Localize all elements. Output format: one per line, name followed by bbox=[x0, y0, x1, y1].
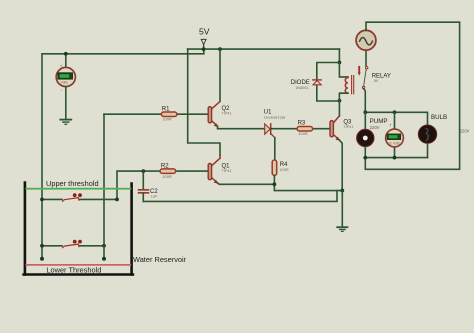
svg-text:Volts: Volts bbox=[61, 81, 69, 85]
wire 5V rail y=49.1 bbox=[188, 48, 340, 50]
resistor R3 bbox=[297, 121, 313, 136]
svg-text:AC Volts: AC Volts bbox=[388, 142, 401, 146]
svg-text:5V: 5V bbox=[374, 79, 379, 83]
svg-text:1N4001: 1N4001 bbox=[295, 86, 308, 90]
power pin 5V bbox=[199, 27, 210, 50]
node ground junction bbox=[340, 189, 344, 193]
node upper switch left bbox=[40, 198, 44, 202]
relay RL1 coil bbox=[339, 63, 353, 101]
svg-text:220V: 220V bbox=[370, 125, 380, 130]
svg-text:R2: R2 bbox=[161, 163, 169, 169]
wire voltmeter bottom lead bbox=[65, 87, 67, 120]
node 5V pin junction bbox=[202, 47, 206, 51]
svg-text:Water Reservoir: Water Reservoir bbox=[133, 255, 187, 264]
svg-text:TIP41: TIP41 bbox=[343, 125, 353, 129]
svg-text:Upper threshold: Upper threshold bbox=[46, 179, 99, 188]
wire lower probe switch line y=245.8 bbox=[42, 245, 62, 247]
wire R2 line y=171.1 bbox=[117, 171, 208, 199]
voltmeter VM1 bbox=[56, 63, 75, 92]
node C2 top junction bbox=[141, 169, 145, 173]
wire riser to lower switch x=104 bbox=[103, 114, 105, 246]
resistor R2 bbox=[160, 163, 176, 179]
node lower switch right bbox=[102, 244, 106, 248]
transistor Q2 bbox=[208, 49, 265, 129]
switch lower (level sensor) bbox=[63, 240, 82, 248]
wire AC loop top right bbox=[365, 22, 459, 169]
svg-text:BULB: BULB bbox=[431, 114, 447, 121]
ground under Q3 bbox=[337, 227, 347, 231]
diode DIODE 1N4001 bbox=[291, 80, 321, 90]
diode D1 branch wires bbox=[317, 63, 340, 102]
svg-text:1uF: 1uF bbox=[151, 193, 158, 198]
wire load top bus y=112.3 bbox=[365, 112, 427, 125]
wire top-left rail y=53.8 bbox=[42, 49, 204, 54]
wire Q1 collector feed bbox=[188, 49, 220, 156]
relay actuation arrow bbox=[358, 67, 361, 76]
node contact/pump top bbox=[363, 110, 367, 114]
wire bulb bottom lead bbox=[427, 143, 429, 157]
upper threshold green line bbox=[26, 188, 130, 190]
node probe tip right bbox=[102, 257, 106, 261]
svg-text:220V: 220V bbox=[460, 129, 470, 134]
svg-text:+: + bbox=[60, 63, 63, 68]
motor PUMP bbox=[357, 118, 388, 147]
wire R4 bottom to ground node bbox=[274, 175, 342, 190]
wire upper probe switch line y=199.4 bbox=[42, 198, 62, 200]
relay contact bbox=[362, 50, 391, 112]
wire to ground 2 bbox=[341, 191, 343, 227]
wire U1 gate to R4 bbox=[274, 138, 276, 160]
water reservoir tank bbox=[24, 183, 133, 275]
wire voltmeter top lead bbox=[65, 54, 67, 68]
svg-text:100R: 100R bbox=[162, 116, 171, 121]
svg-text:R3: R3 bbox=[298, 121, 306, 127]
lower threshold red line bbox=[26, 264, 130, 266]
wire U1 cathode to Q3 base bbox=[271, 128, 330, 130]
switch upper (level sensor) bbox=[63, 193, 82, 201]
ground under voltmeter bbox=[60, 120, 71, 125]
lamp BULB bbox=[418, 114, 469, 143]
node voltmeter top bbox=[64, 52, 68, 56]
AC voltmeter leads bbox=[394, 112, 396, 157]
node meter bottom bbox=[393, 156, 397, 160]
svg-text:100R: 100R bbox=[298, 131, 307, 136]
svg-text:100R: 100R bbox=[279, 167, 288, 172]
wire C2 to ground node bbox=[143, 191, 337, 202]
svg-text:THYRISTOR: THYRISTOR bbox=[263, 116, 285, 120]
resistor R4 bbox=[272, 160, 289, 175]
thyristor U1 bbox=[263, 110, 285, 138]
wire pump bottom lead bbox=[364, 147, 366, 158]
svg-text:100R: 100R bbox=[162, 174, 171, 179]
svg-text:5V: 5V bbox=[199, 27, 210, 37]
svg-text:U1: U1 bbox=[264, 110, 272, 116]
AC voltmeter bbox=[386, 123, 404, 147]
node pump bottom bbox=[363, 156, 367, 160]
node probe tip left bbox=[40, 257, 44, 261]
node relay top junction bbox=[338, 61, 342, 65]
wire pump top lead bbox=[364, 112, 366, 129]
resistor R1 wire bbox=[104, 113, 208, 115]
capacitor C2 bbox=[139, 171, 159, 201]
node relay bottom junction bbox=[338, 99, 342, 103]
transistor Q3 bbox=[330, 101, 354, 191]
node upper switch right bbox=[115, 198, 119, 202]
wire 5V rail drop to relay coil bbox=[338, 49, 340, 62]
transistor Q1 bbox=[208, 155, 274, 184]
svg-text:Lower Threshold: Lower Threshold bbox=[46, 265, 101, 274]
svg-text:R1: R1 bbox=[162, 107, 170, 113]
svg-text:TIP41: TIP41 bbox=[222, 111, 232, 115]
wire left probe drop x=42 bbox=[41, 54, 43, 259]
node Q2 collector junction bbox=[218, 47, 222, 51]
resistor R1 bbox=[161, 107, 177, 122]
wire load bottom bus y=157.6 bbox=[365, 157, 427, 159]
svg-text:TIP41: TIP41 bbox=[222, 169, 232, 173]
wire lower probe stub bbox=[103, 246, 105, 259]
node Q1 emitter junction bbox=[273, 182, 277, 186]
node lower switch left bbox=[40, 244, 44, 248]
AC source V1 bbox=[356, 30, 376, 50]
node meter top bbox=[393, 110, 397, 114]
